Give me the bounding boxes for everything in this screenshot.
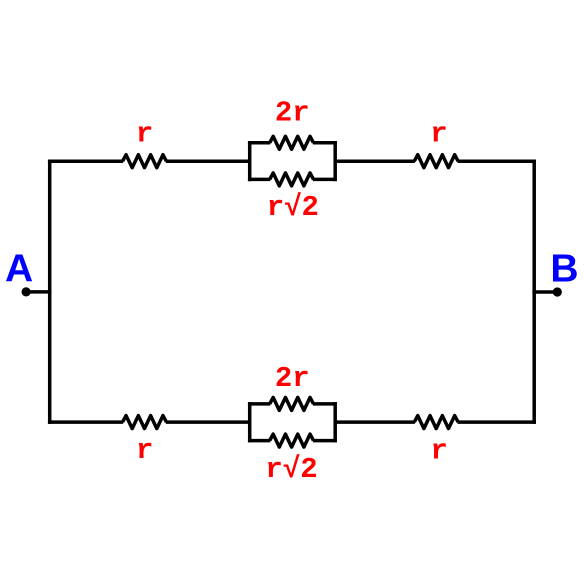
svg-text:2r: 2r xyxy=(275,97,310,130)
wire terminal A stub xyxy=(26,290,51,294)
parallel box U-top left bar xyxy=(248,141,252,181)
terminal A dot xyxy=(22,287,31,296)
wire bottom box upper-branch lead left xyxy=(248,402,270,406)
wire left vertical (node A to corners) xyxy=(48,159,52,423)
wire bottom-left segment xyxy=(48,420,123,424)
wire top box lower-branch lead right xyxy=(313,178,337,182)
svg-text:r√2: r√2 xyxy=(265,453,317,486)
svg-text:r: r xyxy=(136,118,153,151)
wire top box upper-branch lead left xyxy=(248,141,270,145)
resistor R7 value r*sqrt(2) (bottom box lower branch) xyxy=(270,434,314,447)
resistor R2 value 2r (top box upper branch) xyxy=(270,136,314,149)
wire bottom segment between R5 and parallel box xyxy=(166,420,250,424)
wire bottom box lower-branch lead right xyxy=(313,439,337,443)
wire bottom-right segment xyxy=(458,420,536,424)
svg-text:A: A xyxy=(5,248,33,291)
svg-text:B: B xyxy=(550,247,578,290)
parallel box U-bottom left bar xyxy=(248,402,252,442)
svg-text:r: r xyxy=(430,118,447,151)
parallel box U-bottom right bar xyxy=(333,402,337,442)
wire bottom segment between parallel box and R8 xyxy=(335,420,415,424)
resistor R1 value r (top left) xyxy=(123,155,167,168)
wire terminal B stub xyxy=(532,290,557,294)
wire top-left segment xyxy=(48,159,123,163)
resistor R8 value r (bottom right) xyxy=(414,416,458,429)
resistor R4 value r (top right) xyxy=(414,155,458,168)
svg-text:r: r xyxy=(136,434,153,467)
wire top-right segment xyxy=(458,159,536,163)
wire top box upper-branch lead right xyxy=(313,141,337,145)
svg-text:r√2: r√2 xyxy=(267,191,319,224)
wire top box lower-branch lead left xyxy=(248,178,270,182)
resistor R6 value 2r (bottom box upper branch) xyxy=(270,397,314,410)
terminal B dot xyxy=(553,287,562,296)
parallel box U-top right bar xyxy=(333,141,337,181)
resistor R3 value r*sqrt(2) (top box lower branch) xyxy=(270,173,314,186)
svg-text:r: r xyxy=(430,434,447,467)
svg-text:2r: 2r xyxy=(275,362,310,395)
resistor R5 value r (bottom left) xyxy=(123,416,167,429)
wire top segment between parallel box and R4 xyxy=(335,159,415,163)
wire right vertical (node B to corners) xyxy=(532,159,536,423)
wire top segment between R1 and parallel box xyxy=(166,159,250,163)
wire bottom box lower-branch lead left xyxy=(248,439,270,443)
wire bottom box upper-branch lead right xyxy=(313,402,337,406)
